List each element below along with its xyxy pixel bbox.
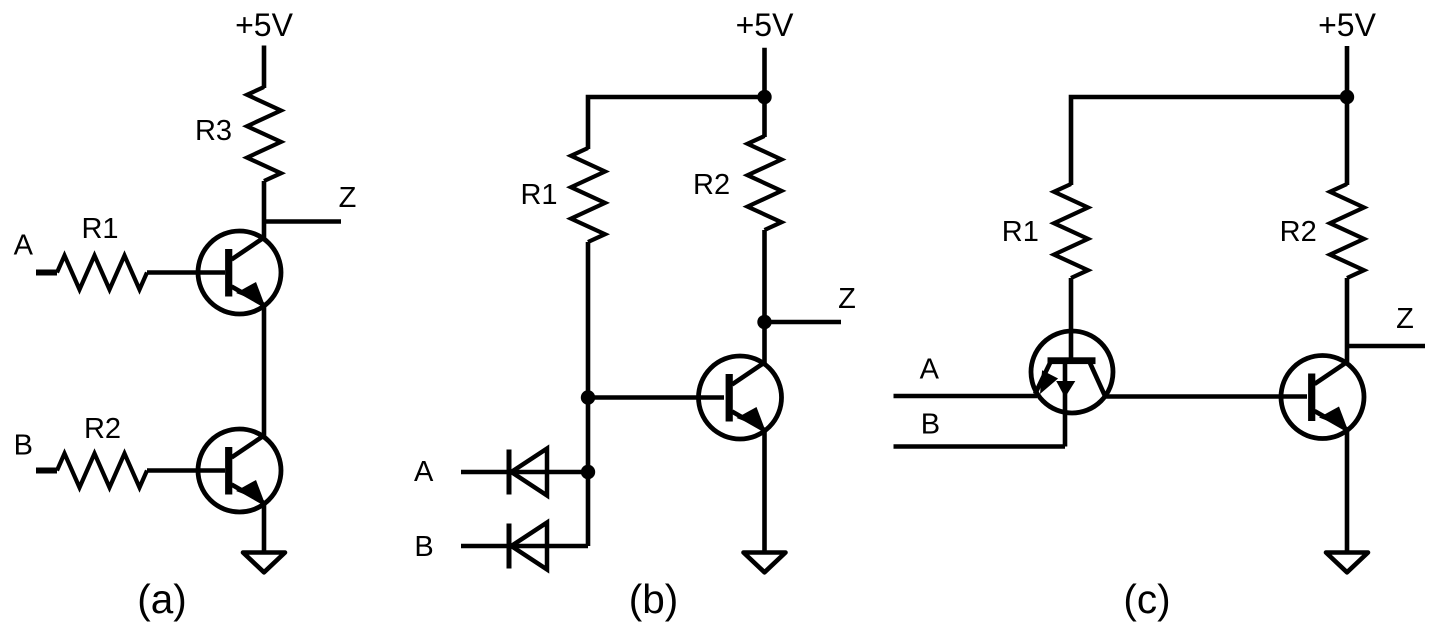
svg-text:B: B	[414, 531, 433, 563]
svg-text:B: B	[14, 430, 33, 462]
wire R2 bottom to Q collector (b)	[762, 230, 767, 363]
wire R1 to Q1 base (c)	[1069, 278, 1074, 359]
diode D1 (input A)	[509, 449, 547, 496]
svg-text:B: B	[921, 409, 940, 441]
svg-text:Z: Z	[1396, 303, 1414, 335]
wire Q1 emitter to Q2 collector (a)	[262, 305, 267, 436]
transistor Q2 (c)	[1281, 356, 1364, 439]
wire Q2 emitter to ground (c)	[1345, 429, 1350, 552]
svg-text:R1: R1	[520, 179, 557, 211]
ground (a)	[243, 553, 285, 573]
svg-text:(c): (c)	[1123, 576, 1170, 622]
wire input B (b)	[461, 544, 588, 549]
junction node base (b)	[581, 390, 595, 404]
svg-text:A: A	[920, 353, 940, 385]
svg-text:Z: Z	[838, 283, 856, 315]
wire input A (c)	[894, 394, 1038, 399]
wire +5V to R3 (a)	[262, 46, 267, 89]
wire top rail to R1 (b)	[588, 97, 765, 149]
svg-text:R1: R1	[81, 213, 118, 245]
junction node diode A (b)	[581, 465, 595, 479]
transistor Q1 (b)	[699, 356, 782, 439]
resistor R2 (b)	[748, 136, 782, 230]
wire input B (c)	[894, 444, 1066, 449]
resistor R3	[247, 87, 281, 181]
resistor R2 (c)	[1330, 184, 1364, 278]
svg-text:R2: R2	[84, 413, 121, 445]
resistor R2 (a)	[57, 454, 147, 488]
junction node at +5V rail (b)	[757, 90, 771, 104]
wire output Z (a)	[264, 219, 341, 224]
svg-text:R2: R2	[693, 169, 730, 201]
svg-text:R3: R3	[195, 115, 232, 147]
wire R2 to Q2 collector (c)	[1345, 278, 1350, 362]
svg-text:+5V: +5V	[1318, 7, 1376, 43]
transistor Q1 (a)	[198, 231, 281, 314]
svg-text:+5V: +5V	[235, 7, 293, 43]
svg-text:+5V: +5V	[736, 7, 794, 43]
wire Q1 emitter to ground (b)	[762, 430, 767, 552]
junction node top rail (c)	[1340, 90, 1354, 104]
svg-text:Z: Z	[339, 182, 357, 214]
ground (c)	[1326, 553, 1368, 573]
wire base (b)	[588, 395, 724, 400]
svg-text:R2: R2	[1280, 216, 1317, 248]
svg-text:(a): (a)	[137, 576, 187, 622]
wire R2 to Q2 base (a)	[147, 468, 225, 473]
wire +5V to R2 (c)	[1345, 46, 1350, 185]
wire top rail to R1 (c)	[1071, 97, 1347, 185]
transistor Q1 multi-emitter (c)	[1031, 331, 1113, 447]
wire R1 bottom to diode rail (b)	[586, 242, 591, 546]
resistor R1 (b)	[571, 148, 605, 242]
wire output Z (b)	[765, 320, 842, 325]
transistor Q2 (a)	[198, 429, 281, 512]
wire input B stub (a)	[36, 468, 57, 474]
resistor R1 (c)	[1054, 184, 1088, 278]
wire output Z (c)	[1347, 344, 1425, 349]
svg-text:(b): (b)	[629, 576, 679, 622]
wire R3 to Q1 collector (a)	[262, 181, 267, 238]
svg-text:A: A	[414, 456, 434, 488]
resistor R1 (a)	[57, 256, 147, 290]
svg-text:A: A	[14, 230, 34, 262]
wire R1 to Q1 base (a)	[147, 270, 225, 275]
wire Q1 collector to Q2 base (c)	[1106, 394, 1307, 399]
wire input A (b)	[461, 470, 588, 475]
wire +5V to node (b)	[762, 48, 767, 137]
node Z junction dot (b)	[757, 315, 771, 329]
ground (b)	[744, 553, 786, 573]
svg-text:R1: R1	[1002, 216, 1039, 248]
wire input A stub (a)	[36, 270, 57, 276]
diode D2 (input B)	[509, 523, 547, 570]
wire Q2 emitter to ground (a)	[262, 503, 267, 552]
